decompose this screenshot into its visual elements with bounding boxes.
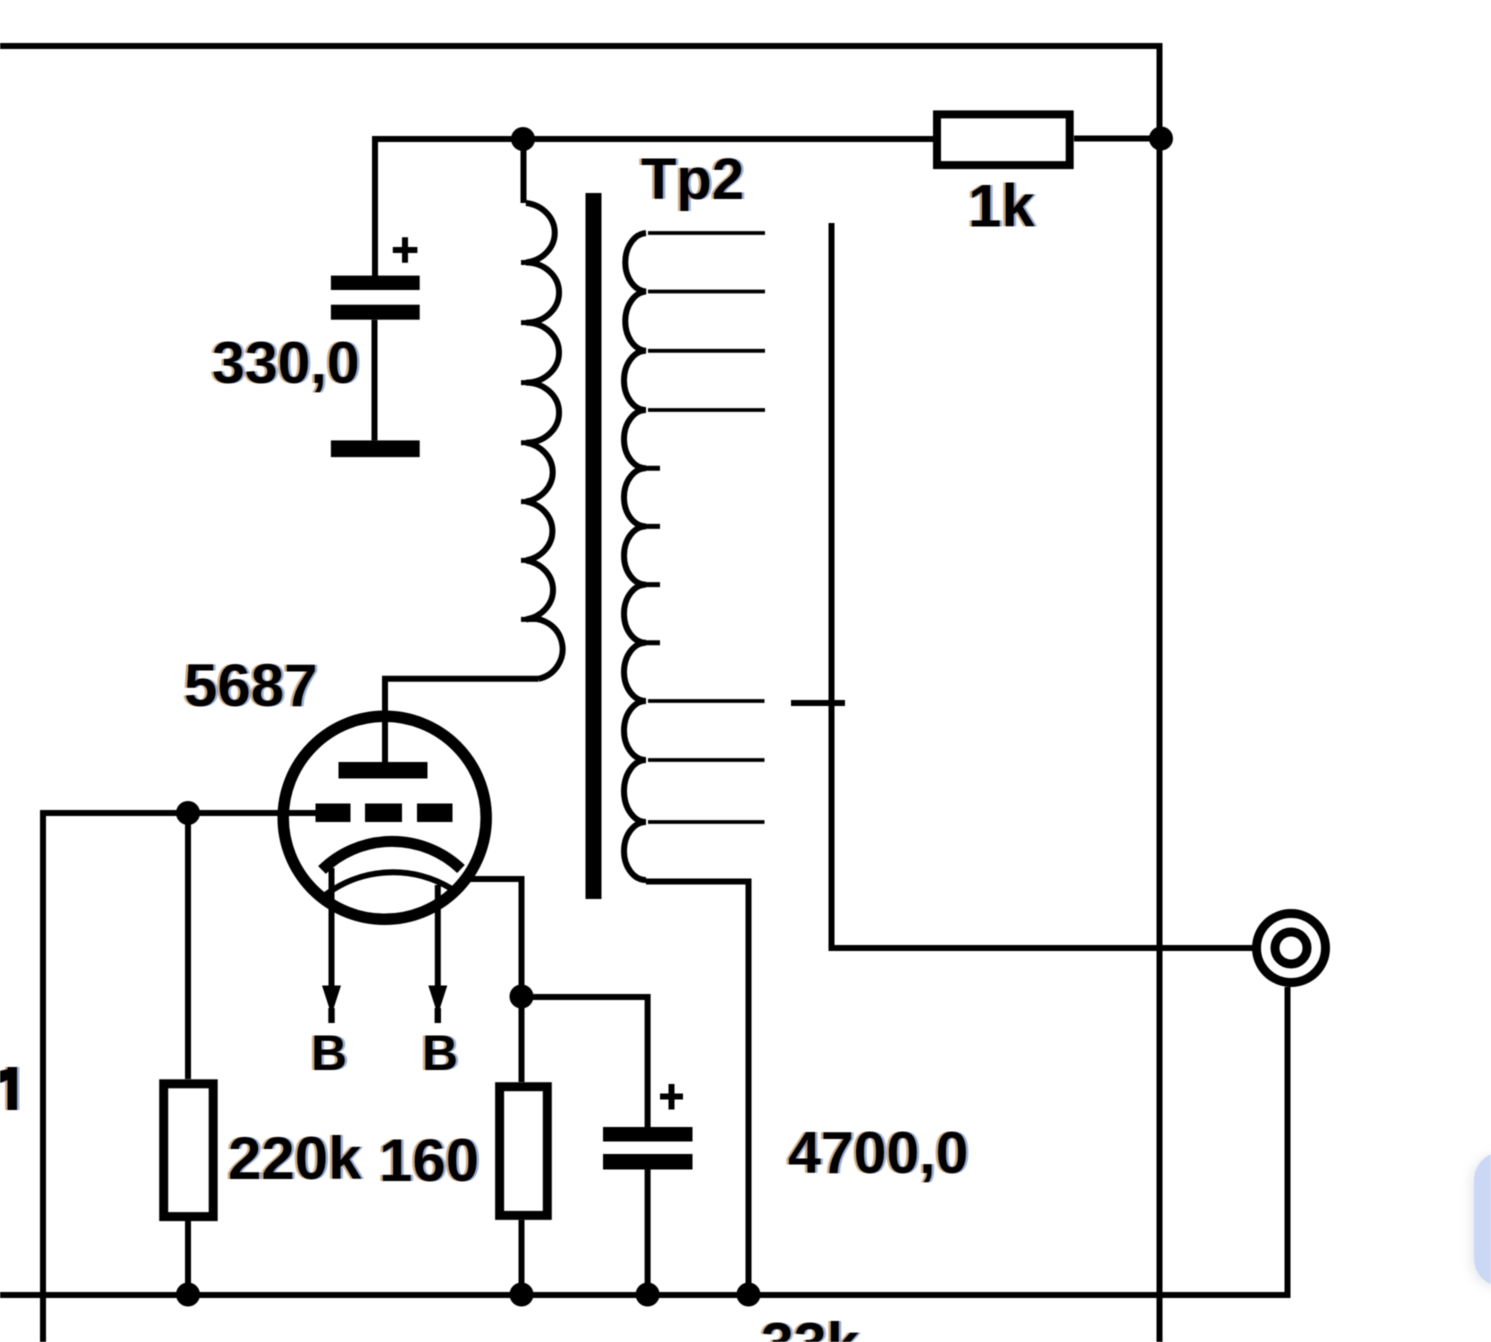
resistor 1k bbox=[937, 114, 1070, 165]
transformer Tp2 secondary winding bbox=[624, 233, 646, 880]
node junction dot 4700 cap / rail bbox=[636, 1283, 660, 1307]
tube anode plate bbox=[339, 762, 428, 779]
wire: grid input from left bbox=[43, 813, 316, 1342]
wire: B+ node horizontal to 1k left bbox=[375, 139, 933, 276]
node junction dot cathode / 4700 cap bbox=[510, 985, 534, 1009]
label 330,0 bbox=[212, 330, 360, 396]
resistor 160 lead bottom bbox=[519, 1220, 525, 1297]
wire: bottom ground rail up to output connector bbox=[0, 987, 1288, 1295]
label B left bbox=[311, 1025, 347, 1081]
node junction dot at 1k / right rail bbox=[1149, 127, 1173, 151]
wire: secondary bottom lead to ground rail bbox=[646, 882, 749, 1298]
capacitor 4700,0 plus sign bbox=[660, 1084, 683, 1110]
wire: secondary output vertical line to connector bbox=[832, 223, 1257, 948]
wire: top supply rail and right rail bbox=[0, 46, 1160, 1342]
transformer Tp2 core bbox=[586, 193, 602, 899]
tube heater arc bbox=[324, 872, 451, 896]
label 220k bbox=[228, 1125, 362, 1192]
transformer secondary cusp ticks bbox=[646, 468, 660, 643]
svg-text:33k: 33k bbox=[761, 1311, 860, 1342]
wire: tap tick crossing output line bbox=[791, 700, 845, 706]
label 4700,0 bbox=[788, 1120, 968, 1186]
node junction dot at B+ / cap 330 bbox=[511, 127, 535, 151]
label 5687 bbox=[184, 652, 317, 719]
wire: junction down to transformer primary bbox=[521, 139, 527, 203]
tube cathode arc bbox=[322, 841, 461, 870]
capacitor C 330,0 plus sign bbox=[393, 237, 418, 263]
svg-text:B: B bbox=[422, 1025, 458, 1081]
watermark blob bottom right bbox=[1474, 1152, 1491, 1287]
svg-text:4700,0: 4700,0 bbox=[788, 1120, 968, 1186]
output connector outer ring bbox=[1257, 914, 1326, 983]
node junction dot 220k / rail bbox=[176, 1283, 200, 1307]
tube 5687 envelope bbox=[283, 716, 486, 919]
svg-text:B: B bbox=[311, 1025, 347, 1081]
svg-text:1k: 1k bbox=[968, 173, 1035, 240]
label 33k (cut at bottom) bbox=[761, 1311, 860, 1342]
resistor 160 bbox=[500, 1087, 548, 1216]
wire: primary bottom to tube anode bbox=[385, 679, 539, 763]
capacitor C 330,0 bbox=[331, 276, 420, 458]
transformer primary cusp ticks bbox=[521, 263, 535, 620]
label 1 partial at left edge bbox=[0, 1067, 17, 1110]
label Tp2 bbox=[641, 147, 744, 212]
resistor 220k bbox=[164, 1084, 214, 1217]
tube grid dashes bbox=[316, 804, 453, 823]
label 160 bbox=[379, 1127, 479, 1194]
svg-text:5687: 5687 bbox=[184, 652, 317, 719]
resistor 220k leads bbox=[185, 813, 191, 1297]
output connector inner ring bbox=[1275, 932, 1307, 964]
label 1k bbox=[968, 173, 1035, 240]
label B right bbox=[422, 1025, 458, 1081]
svg-text:220k: 220k bbox=[228, 1125, 362, 1192]
node junction dot secondary lead / rail bbox=[737, 1283, 761, 1307]
heater lead right with arrow to B bbox=[428, 885, 447, 1023]
wire: 1k right terminal to right rail bbox=[1074, 136, 1161, 142]
heater lead left with arrow to B bbox=[322, 868, 341, 1023]
wire: cathode to 160 resistor bbox=[465, 879, 522, 1082]
node junction dot grid / 220k bbox=[176, 801, 200, 825]
capacitor 4700,0 bbox=[603, 1127, 693, 1297]
transformer secondary taps bbox=[648, 233, 765, 822]
svg-text:Tp2: Tp2 bbox=[641, 147, 744, 212]
wire: cathode node to 4700 cap bbox=[522, 997, 648, 1127]
transformer Tp2 primary winding bbox=[526, 203, 563, 679]
svg-text:160: 160 bbox=[379, 1127, 479, 1194]
node junction dot 160 / rail bbox=[510, 1283, 534, 1307]
svg-text:330,0: 330,0 bbox=[212, 330, 360, 396]
